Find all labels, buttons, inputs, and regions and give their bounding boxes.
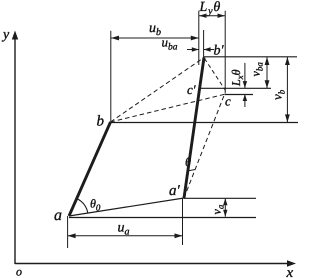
angle tick theta between bar and dashed line <box>187 170 195 172</box>
svg-text:c′: c′ <box>187 82 196 97</box>
dashed chord b to b-prime <box>111 58 205 123</box>
dashed translated bar a-prime to c <box>184 94 225 198</box>
dashed line b-prime to c <box>205 59 226 91</box>
svg-text:a′: a′ <box>169 183 181 199</box>
dimension Lx*theta <box>244 63 246 88</box>
dimension u_a <box>68 235 183 237</box>
svg-text:θ0: θ0 <box>90 197 101 213</box>
bar a-prime b-prime (displaced member) <box>184 58 204 199</box>
svg-text:vba: vba <box>249 62 265 77</box>
svg-text:x: x <box>286 265 294 278</box>
svg-text:b: b <box>97 114 105 130</box>
angle arc theta_0 at a <box>77 199 88 214</box>
extension line 2 above b-prime <box>203 30 205 58</box>
horizontal line through c <box>225 94 254 96</box>
dimension v_b <box>286 57 288 122</box>
dimension u_ba <box>187 49 199 51</box>
x-axis <box>15 263 290 265</box>
pointer to b-prime <box>204 49 214 51</box>
svg-text:Lxθ: Lxθ <box>229 69 245 87</box>
svg-text:vb: vb <box>270 89 287 100</box>
svg-text:y: y <box>1 28 10 43</box>
svg-text:b′: b′ <box>214 44 225 59</box>
extension line below a-prime <box>182 198 184 245</box>
horizontal line through b <box>111 122 299 124</box>
svg-text:a: a <box>54 207 62 224</box>
svg-text:ub: ub <box>149 21 161 38</box>
dimension v_ba <box>266 57 268 88</box>
dimension u_b <box>111 37 199 39</box>
svg-text:Lyθ: Lyθ <box>199 0 222 17</box>
extension line 1 at x=198.8 <box>198 11 200 65</box>
svg-text:o: o <box>16 265 22 278</box>
dashed line b to c <box>111 94 225 122</box>
dimension Ly*theta <box>199 15 225 17</box>
horizontal line through c-prime <box>200 87 271 89</box>
svg-text:ua: ua <box>118 221 130 238</box>
horizontal line through a <box>69 217 256 219</box>
svg-text:θ: θ <box>185 155 191 169</box>
horizontal line through a-prime <box>184 197 256 199</box>
svg-text:uba: uba <box>162 35 178 53</box>
dimension v_a <box>224 198 226 216</box>
extension line above b <box>110 31 112 122</box>
y-axis <box>14 37 16 264</box>
svg-text:c: c <box>225 94 231 109</box>
bar ab (original member) <box>69 122 111 216</box>
horizontal line through b-prime <box>204 56 298 58</box>
svg-text:va: va <box>210 204 226 214</box>
extension line 3 through c <box>224 11 226 94</box>
line a to a-prime <box>69 198 184 216</box>
extension line below a <box>67 216 69 248</box>
